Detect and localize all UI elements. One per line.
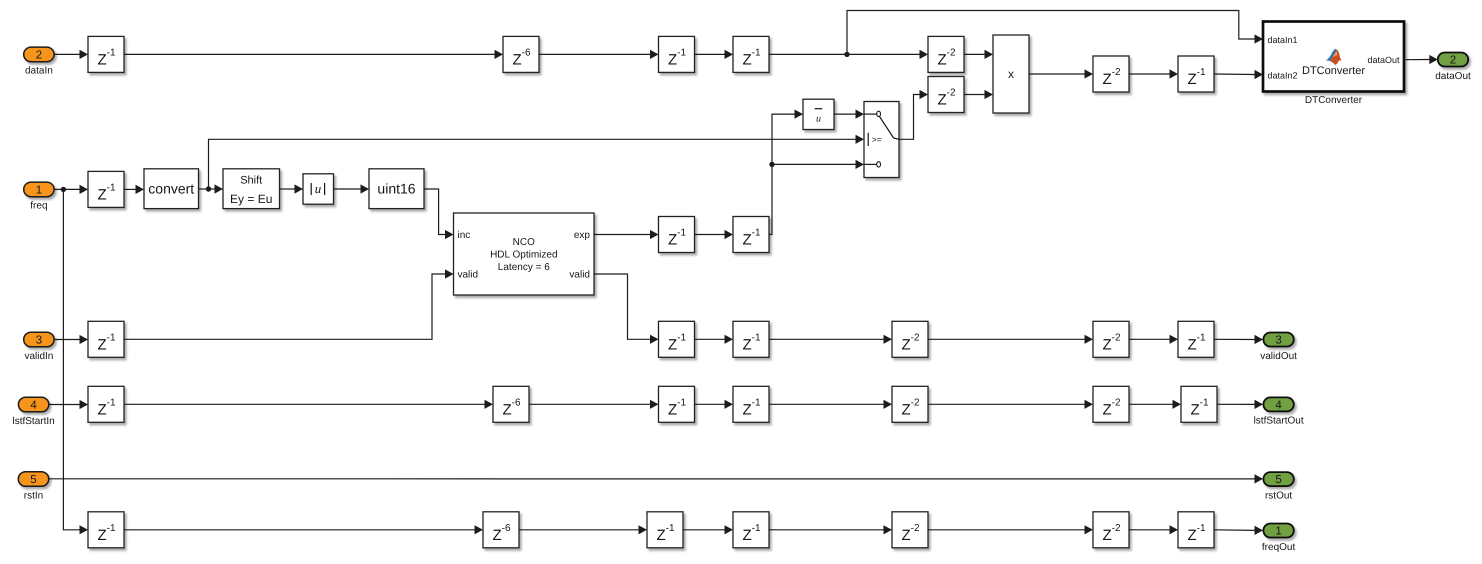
svg-text:lstfStartOut: lstfStartOut: [1254, 416, 1304, 427]
junction node exp tap: [769, 162, 774, 167]
delay Z-1 lstf b: [659, 386, 695, 422]
svg-text:4: 4: [30, 399, 37, 411]
wire Z-2 bottom to product: [964, 94, 985, 96]
wire exp chain up to conj: [769, 114, 795, 234]
delay Z-2 lstf e: [1093, 386, 1129, 422]
delay Z-1 freq chain b: [647, 512, 683, 548]
delay Z-2 valid c: [892, 321, 928, 357]
data type cast uint16 block: [369, 169, 424, 209]
wire Shift to abs: [280, 188, 295, 190]
svg-text:>=: >=: [872, 134, 882, 144]
wire to DTConverter dataIn2: [1214, 73, 1255, 76]
svg-text:lstfStartIn: lstfStartIn: [12, 416, 54, 427]
wire: [124, 403, 485, 405]
wire to freqOut: [1214, 529, 1255, 532]
wire: [928, 403, 1085, 405]
wire product to Z-2: [1029, 73, 1085, 75]
svg-text:DTConverter: DTConverter: [1302, 65, 1365, 77]
delay Z-6 freq chain: [483, 512, 519, 548]
delay Z-1 freq chain f: [1178, 512, 1214, 548]
delay Z-1 valid a: [659, 321, 695, 357]
svg-text:1: 1: [36, 184, 42, 196]
junction node convert branch: [206, 186, 211, 191]
wire: [124, 529, 475, 531]
wire: [769, 403, 884, 405]
wire: [928, 529, 1085, 531]
svg-text:2: 2: [1450, 54, 1456, 66]
wire convert to Shift: [199, 188, 215, 190]
svg-text:4: 4: [1275, 399, 1282, 411]
svg-text:dataIn1: dataIn1: [1268, 35, 1298, 45]
svg-text:dataOut: dataOut: [1435, 71, 1471, 82]
wire DTConverter to dataOut port: [1404, 59, 1429, 61]
svg-text:DTConverter: DTConverter: [1305, 95, 1363, 106]
svg-text:freqOut: freqOut: [1262, 542, 1296, 553]
inport 5 rstIn: [18, 472, 48, 502]
delay Z-1 exp b: [733, 217, 769, 253]
svg-text:Ey = Eu: Ey = Eu: [230, 192, 272, 206]
delay Z-6 dataIn: [503, 36, 539, 72]
svg-text:valid: valid: [458, 270, 479, 281]
wire: [124, 188, 136, 190]
outport 4 lstfStartOut: [1254, 397, 1304, 426]
svg-text:uint16: uint16: [377, 181, 415, 197]
svg-text:rstIn: rstIn: [24, 490, 43, 501]
svg-text:rstOut: rstOut: [1265, 490, 1292, 501]
wire exp tap to switch input 3: [772, 163, 856, 165]
wire tap to DTConverter dataIn1: [847, 11, 1255, 55]
wire convert branch to switch control: [209, 139, 856, 189]
wire freq to Z1: [54, 188, 79, 190]
delay Z-2 valid d: [1093, 321, 1129, 357]
wire NCO valid out down to chain: [594, 274, 650, 339]
abs block |u|: [303, 174, 334, 204]
delay Z-2 freq chain e: [1093, 512, 1129, 548]
delay Z-1 lstf f: [1181, 386, 1217, 422]
product block x: [993, 35, 1029, 113]
delay Z-1 valid b: [733, 321, 769, 357]
delay Z-1 dataIn c: [733, 36, 769, 72]
wire abs to uint16: [334, 188, 361, 190]
svg-text:u: u: [315, 181, 322, 196]
delay Z-2 top: [928, 36, 964, 72]
delay Z-1 valid e: [1178, 321, 1214, 357]
wire: [695, 234, 725, 236]
junction node tap to DTConverter: [844, 52, 849, 57]
wire: [1129, 529, 1170, 531]
wire NCO exp to Z-1: [594, 234, 650, 236]
wire: [695, 53, 725, 55]
wire lstfStartIn to Z1: [49, 404, 80, 406]
delay Z-2 freq chain d: [892, 512, 928, 548]
wire rstIn to rstOut: [49, 478, 1255, 480]
outport 2 dataOut: [1435, 53, 1471, 82]
svg-text:1: 1: [1275, 525, 1281, 537]
wire: [519, 529, 639, 531]
wire validIn delay to NCO valid: [124, 274, 445, 339]
svg-text:3: 3: [36, 334, 42, 346]
wire to lstfStartOut: [1217, 403, 1255, 405]
inport 4 lstfStartIn: [12, 397, 54, 427]
svg-text:valid: valid: [569, 270, 590, 281]
svg-text:5: 5: [30, 474, 36, 486]
outport 3 validOut: [1260, 333, 1297, 362]
svg-text:5: 5: [1275, 474, 1281, 486]
svg-text:dataIn2: dataIn2: [1268, 70, 1298, 80]
svg-text:convert: convert: [148, 181, 194, 197]
wire: [695, 338, 725, 340]
svg-text:dataIn: dataIn: [25, 66, 53, 77]
inport 3 validIn: [24, 332, 54, 362]
wire dataIn to Z1: [54, 53, 79, 55]
wire: [539, 53, 650, 55]
delay Z-1 freq chain a: [88, 512, 124, 548]
wire: [695, 403, 725, 405]
delay Z-2 bottom: [928, 77, 964, 113]
wire validIn to Z1: [54, 339, 79, 341]
wire: [529, 403, 650, 405]
outport 1 freqOut: [1262, 524, 1296, 553]
MATLAB function block DTConverter: [1263, 22, 1404, 92]
wire to Z-6: [124, 53, 495, 55]
inport 2 dataIn: [24, 47, 54, 77]
svg-text:2: 2: [36, 49, 42, 61]
data type convert block: [144, 169, 199, 209]
wire to Z-2 with tap: [769, 53, 920, 55]
delay Z-1 dataIn a: [88, 36, 124, 72]
delay Z-1 validIn: [88, 321, 124, 357]
outport 5 rstOut: [1263, 472, 1293, 501]
delay Z-1 freq: [88, 171, 124, 207]
wire: [1129, 73, 1170, 75]
svg-text:Shift: Shift: [240, 175, 262, 187]
junction node freq branch: [61, 187, 66, 192]
wire switch output to Z-2 bottom: [899, 95, 920, 140]
svg-text:HDL Optimized: HDL Optimized: [490, 250, 557, 261]
wire conj to switch input 1: [834, 113, 856, 115]
svg-text:dataOut: dataOut: [1367, 55, 1400, 65]
svg-text:x: x: [1008, 67, 1014, 81]
delay Z-1 dataIn b: [659, 36, 695, 72]
delay Z-6 lstf: [493, 386, 529, 422]
MATLAB logo icon: [1325, 49, 1341, 65]
wire uint16 to NCO inc: [424, 189, 445, 235]
wire freq branch down to freqOut chain: [63, 189, 79, 529]
wire: [683, 529, 725, 531]
svg-text:exp: exp: [574, 230, 591, 241]
svg-text:NCO: NCO: [513, 237, 535, 248]
wire: [928, 338, 1085, 340]
shift arithmetic block: [223, 169, 280, 209]
wire Z-2 top to product: [964, 53, 985, 55]
wire to validOut: [1214, 338, 1255, 340]
svg-text:freq: freq: [30, 201, 47, 212]
delay Z-1 lstf c: [733, 386, 769, 422]
delay Z-2 out chain: [1093, 56, 1129, 92]
delay Z-1 exp a: [659, 217, 695, 253]
wire: [769, 338, 884, 340]
wire: [1129, 338, 1170, 340]
inport 1 freq: [24, 182, 54, 212]
svg-text:inc: inc: [458, 230, 471, 241]
delay Z-1 out chain: [1178, 56, 1214, 92]
NCO HDL Optimized block: [454, 213, 595, 295]
switch block with threshold criteria: [864, 102, 899, 178]
wire: [1129, 403, 1173, 405]
delay Z-2 lstf d: [892, 386, 928, 422]
complex conjugate block u-bar: [803, 99, 834, 129]
delay Z-1 freq chain c: [733, 512, 769, 548]
svg-text:u: u: [816, 113, 821, 124]
svg-text:validIn: validIn: [24, 351, 53, 362]
svg-text:validOut: validOut: [1260, 351, 1297, 362]
delay Z-1 lstf a: [88, 386, 124, 422]
svg-text:3: 3: [1275, 334, 1281, 346]
wire: [769, 529, 884, 531]
svg-text:Latency = 6: Latency = 6: [498, 262, 550, 273]
